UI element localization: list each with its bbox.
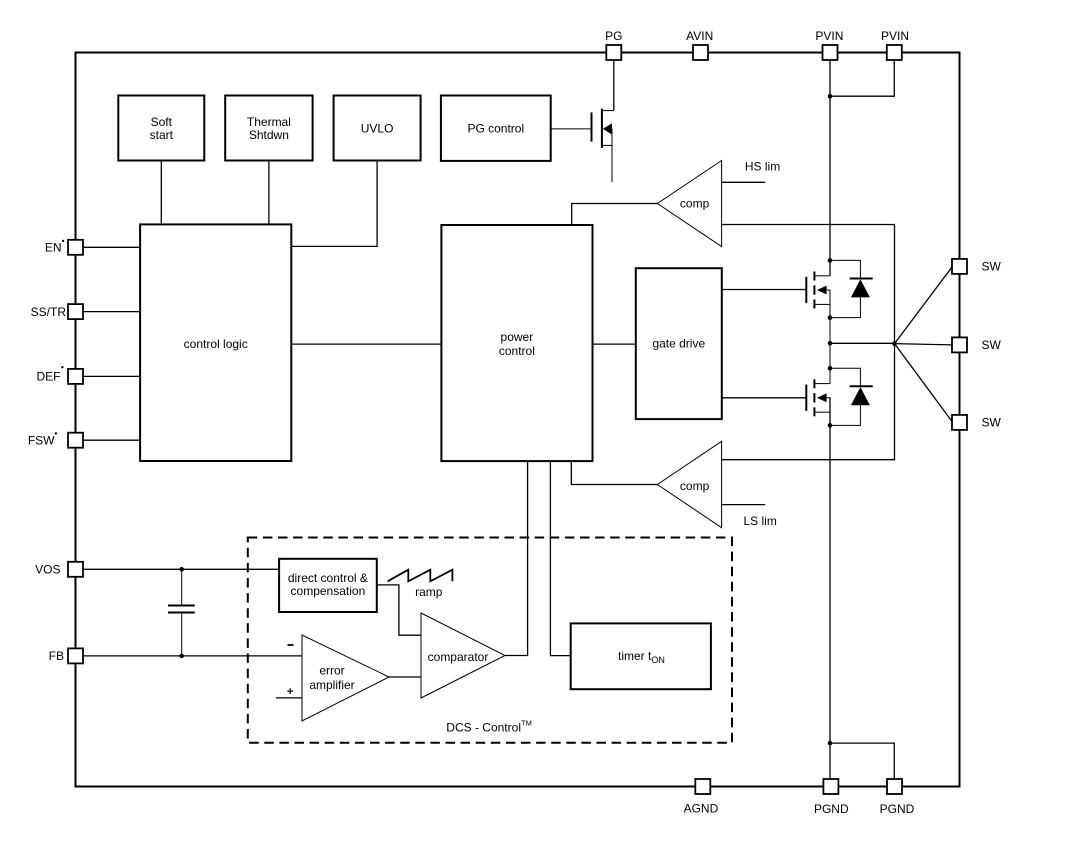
- ramp symbol: [388, 570, 453, 599]
- junction FB / C1: [179, 654, 184, 659]
- svg-text:comparator: comparator: [428, 650, 489, 664]
- svg-text:Shtdwn: Shtdwn: [249, 128, 289, 142]
- label minus input: [288, 644, 294, 646]
- op-amp HS comp: [657, 161, 721, 247]
- IC outline border: [76, 53, 960, 787]
- svg-text:EN: EN: [45, 241, 62, 255]
- wire SW node: [830, 342, 895, 344]
- svg-text:start: start: [150, 128, 174, 142]
- svg-text:HS lim: HS lim: [745, 159, 780, 173]
- pin PG: [605, 29, 622, 60]
- pin SW 3: [952, 415, 1002, 430]
- block power control: [441, 225, 592, 461]
- svg-text:direct control &: direct control &: [288, 571, 368, 585]
- wire error amp plus stub: [276, 697, 302, 699]
- wire comparator output to power control: [505, 461, 528, 655]
- svg-text:compensation: compensation: [291, 584, 366, 598]
- transistor Q2 HS FET: [806, 272, 830, 384]
- wire PG pin to Q1 drain: [613, 61, 615, 111]
- svg-text:DEF: DEF: [37, 369, 61, 383]
- block PG control: [441, 96, 551, 161]
- wire LS comp output to power control: [571, 461, 657, 484]
- wire Q3 source to PGND: [829, 397, 831, 779]
- svg-text:Thermal: Thermal: [247, 115, 291, 129]
- wire SW fan bottom: [895, 344, 953, 422]
- DCS-Control dashed box: [248, 538, 732, 743]
- wire comp sense loop: [722, 225, 895, 460]
- svg-text:VOS: VOS: [35, 563, 60, 577]
- transistor Q3 LS FET: [806, 379, 830, 416]
- svg-text:comp: comp: [680, 479, 710, 493]
- svg-text:PGND: PGND: [880, 802, 915, 816]
- pin EN: [45, 240, 83, 255]
- junction Q2 source / D1: [828, 315, 833, 320]
- wire power control to gate drive: [593, 343, 637, 345]
- block control logic: [140, 224, 291, 461]
- wire FSW to control logic: [83, 439, 140, 441]
- svg-text:error: error: [319, 663, 344, 677]
- capacitor C1: [168, 569, 195, 656]
- pin PGND 1: [814, 779, 849, 816]
- svg-text:SW: SW: [982, 416, 1002, 430]
- wire gate drive to Q2 gate: [722, 289, 807, 291]
- wire PVIN2 bridge: [830, 61, 894, 97]
- wire PVIN to Q2 drain: [829, 61, 831, 276]
- wire error amp to comparator: [389, 676, 421, 678]
- pin SW 2: [952, 337, 1002, 352]
- block gate drive: [636, 268, 722, 419]
- block soft start: [118, 96, 204, 161]
- pin SS/TR: [31, 304, 83, 319]
- wire SW fan middle: [895, 344, 953, 345]
- pin DEF: [37, 366, 84, 384]
- svg-text:FSW: FSW: [28, 434, 55, 448]
- wire EN to control logic: [83, 246, 140, 248]
- op-amp error amplifier: [302, 635, 389, 721]
- svg-text:gate drive: gate drive: [652, 337, 705, 351]
- wire FB to error amplifier: [83, 655, 302, 657]
- block direct control and compensation: [279, 559, 377, 612]
- svg-text:Soft: Soft: [151, 115, 173, 129]
- pin FSW: [28, 432, 83, 448]
- svg-text:PGND: PGND: [814, 802, 849, 816]
- svg-text:comp: comp: [680, 196, 710, 210]
- svg-text:PG: PG: [605, 29, 622, 43]
- svg-text:PG control: PG control: [467, 121, 524, 135]
- svg-text:PVIN: PVIN: [815, 29, 843, 43]
- pin PVIN 1: [815, 29, 843, 60]
- block UVLO: [334, 96, 421, 161]
- svg-text:SW: SW: [982, 260, 1002, 274]
- svg-text:SS/TR: SS/TR: [31, 305, 67, 319]
- pin PVIN 2: [881, 29, 909, 60]
- junction Q3 drain / D2: [828, 366, 833, 371]
- wire DEF to control logic: [83, 375, 140, 377]
- svg-text:SW: SW: [982, 338, 1002, 352]
- wire control logic to power control: [291, 343, 441, 345]
- wire HS comp output to power control: [572, 204, 658, 226]
- svg-text:AVIN: AVIN: [686, 29, 713, 43]
- wire gate drive to Q3 gate: [722, 397, 807, 399]
- wire ramp to comparator: [377, 585, 421, 635]
- svg-text:FB: FB: [49, 649, 64, 663]
- block timer tON: [571, 623, 711, 689]
- junction SW fan: [892, 341, 897, 346]
- junction PGND node: [828, 741, 833, 746]
- wire HS lim stub: [722, 181, 766, 183]
- svg-text:power: power: [501, 330, 534, 344]
- svg-text:ramp: ramp: [415, 585, 443, 599]
- junction Q3 source / D2: [828, 423, 833, 428]
- wire power control to timer: [550, 461, 570, 655]
- pin AVIN: [686, 29, 713, 60]
- wire LS lim stub: [722, 504, 766, 506]
- op-amp LS comp: [657, 441, 721, 527]
- svg-text:AGND: AGND: [684, 802, 719, 816]
- wire soft start to control logic: [160, 161, 162, 225]
- block thermal shutdown: [225, 96, 312, 161]
- svg-text:DCS - ControlTM: DCS - ControlTM: [446, 719, 532, 735]
- svg-text:PVIN: PVIN: [881, 29, 909, 43]
- junction Q2 drain / D1: [828, 258, 833, 263]
- wire SW fan top: [895, 267, 953, 344]
- wire thermal shtdwn to control logic: [268, 161, 270, 225]
- svg-text:LS lim: LS lim: [744, 514, 777, 528]
- junction SW column: [828, 341, 833, 346]
- wire VOS to direct control: [83, 568, 279, 570]
- pin VOS: [35, 562, 83, 577]
- op-amp comparator: [421, 613, 505, 698]
- svg-text:control logic: control logic: [184, 337, 248, 351]
- label plus input: [287, 688, 293, 694]
- pin SW 1: [952, 259, 1002, 274]
- diode D2 body diode LS: [830, 368, 873, 425]
- pin AGND: [684, 779, 719, 816]
- wire UVLO to control logic: [291, 161, 377, 247]
- svg-text:amplifier: amplifier: [309, 678, 354, 692]
- pin PGND 2: [880, 779, 915, 816]
- pin FB: [49, 648, 83, 663]
- wire SS/TR to control logic: [83, 311, 140, 313]
- svg-text:control: control: [499, 344, 535, 358]
- svg-text:UVLO: UVLO: [361, 121, 394, 135]
- junction PVIN node: [828, 94, 833, 99]
- junction VOS / C1: [179, 567, 184, 572]
- wire PGND2 bridge: [830, 743, 894, 779]
- transistor Q1 PG FET: [551, 109, 614, 183]
- diode D1 body diode HS: [830, 260, 873, 317]
